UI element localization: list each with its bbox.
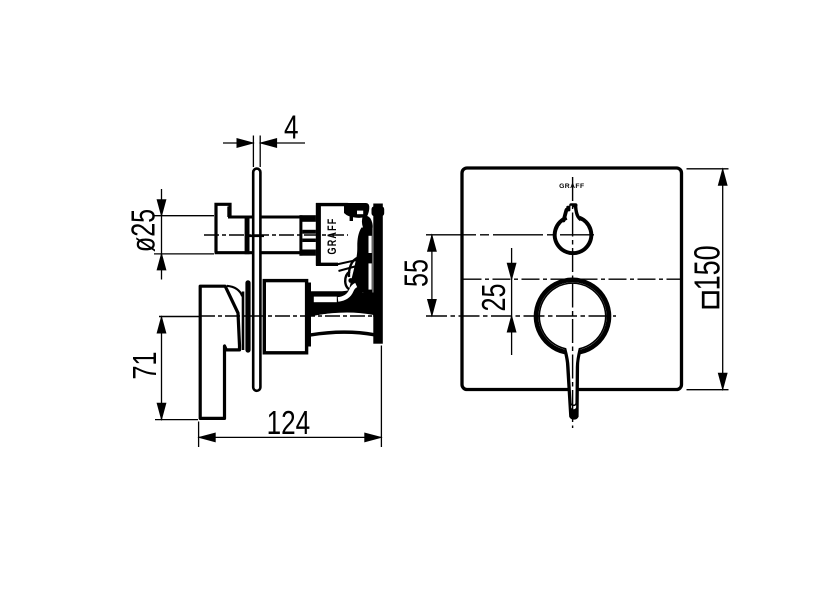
dimension 124 extension lines — [199, 346, 382, 448]
mixer body right bar — [307, 283, 312, 347]
knob-cylinder flange — [245, 216, 250, 255]
pipe interior — [314, 313, 374, 332]
diverter knob notch cap — [569, 203, 577, 207]
threaded nipple bands — [300, 215, 316, 256]
svg-text:GRAFF: GRAFF — [326, 218, 340, 255]
hub ring line — [242, 292, 245, 351]
hub flange bar — [245, 280, 250, 352]
svg-text:ø25: ø25 — [125, 209, 162, 252]
handle hub transition arc — [227, 286, 243, 297]
vertical centerline — [572, 177, 574, 428]
square symbol — [703, 293, 718, 308]
pipe bottom edge — [311, 332, 375, 335]
dimension 71 line — [161, 317, 163, 420]
front plate — [462, 168, 682, 390]
diverter cylinder bottom edge — [215, 251, 302, 254]
clamp lower wedge — [349, 228, 372, 293]
cylinder end cap — [299, 215, 302, 255]
dimension 55 line — [431, 235, 433, 316]
diverter knob profile — [216, 204, 230, 252]
centerline lower (cartridge axis) — [159, 316, 200, 318]
dimension 124 line — [199, 436, 382, 438]
notch left line — [564, 210, 567, 221]
mounting ear blob — [362, 215, 373, 227]
inner ring line + lever inner outline — [539, 283, 605, 405]
elbow hook arcs — [349, 258, 358, 278]
svg-text:25: 25 — [476, 284, 513, 312]
svg-text:GRAFF: GRAFF — [559, 183, 584, 190]
mounting clamp corner mass — [344, 203, 369, 218]
handle ring + lever (keyhole) — [534, 278, 612, 420]
centerline upper (diverter axis) — [204, 234, 348, 236]
valve body outline — [316, 205, 351, 265]
dimension 150 extension lines — [687, 169, 729, 390]
handle axis line — [426, 315, 616, 317]
dimension 4 extension lines — [253, 136, 260, 168]
dimension 150 line — [722, 169, 724, 390]
svg-text:55: 55 — [398, 259, 435, 287]
svg-text:150: 150 — [687, 245, 728, 290]
diverter knob circle — [555, 218, 592, 253]
wall plate bar — [373, 204, 383, 344]
escutcheon plate (side, edge-on) — [253, 169, 260, 391]
dimension 71 extension lines — [155, 419, 198, 421]
side view solid geometry — [159, 169, 384, 419]
mounting screw head — [372, 206, 385, 216]
dimension 25 line — [511, 248, 513, 355]
handle lever (side) — [200, 286, 239, 418]
valve body left edge — [316, 203, 321, 266]
small circle axis line — [426, 234, 594, 236]
plate horizontal centerline — [464, 278, 684, 280]
dimension 71 arrows — [157, 317, 166, 333]
mixer body (cartridge housing) — [264, 281, 306, 353]
clamp slot highlights — [369, 236, 372, 253]
elbow white channel — [338, 285, 356, 299]
notch slit — [571, 206, 573, 215]
diverter cylinder top edge — [228, 216, 302, 219]
svg-text:71: 71 — [127, 352, 164, 380]
dimension 4 arrows — [237, 139, 253, 148]
diverter knob notch line — [227, 207, 229, 218]
dimension 4 lines — [223, 142, 305, 144]
notch right leg — [576, 207, 581, 220]
elbow boss dot — [348, 278, 353, 283]
dimension 124 arrows — [199, 433, 215, 442]
elbow diagonals — [337, 260, 359, 271]
outlet stub and supply pipe (filled) — [307, 284, 375, 318]
notch left nub — [566, 206, 570, 212]
stub interior slot — [314, 297, 337, 303]
svg-text:124: 124 — [267, 405, 311, 442]
svg-text:4: 4 — [284, 109, 299, 146]
dimension o25 arrows — [157, 200, 166, 216]
dimension o25 line — [161, 189, 163, 280]
centerline crossing plate (upper) — [250, 235, 265, 238]
dimension o25 extension lines — [154, 216, 214, 254]
